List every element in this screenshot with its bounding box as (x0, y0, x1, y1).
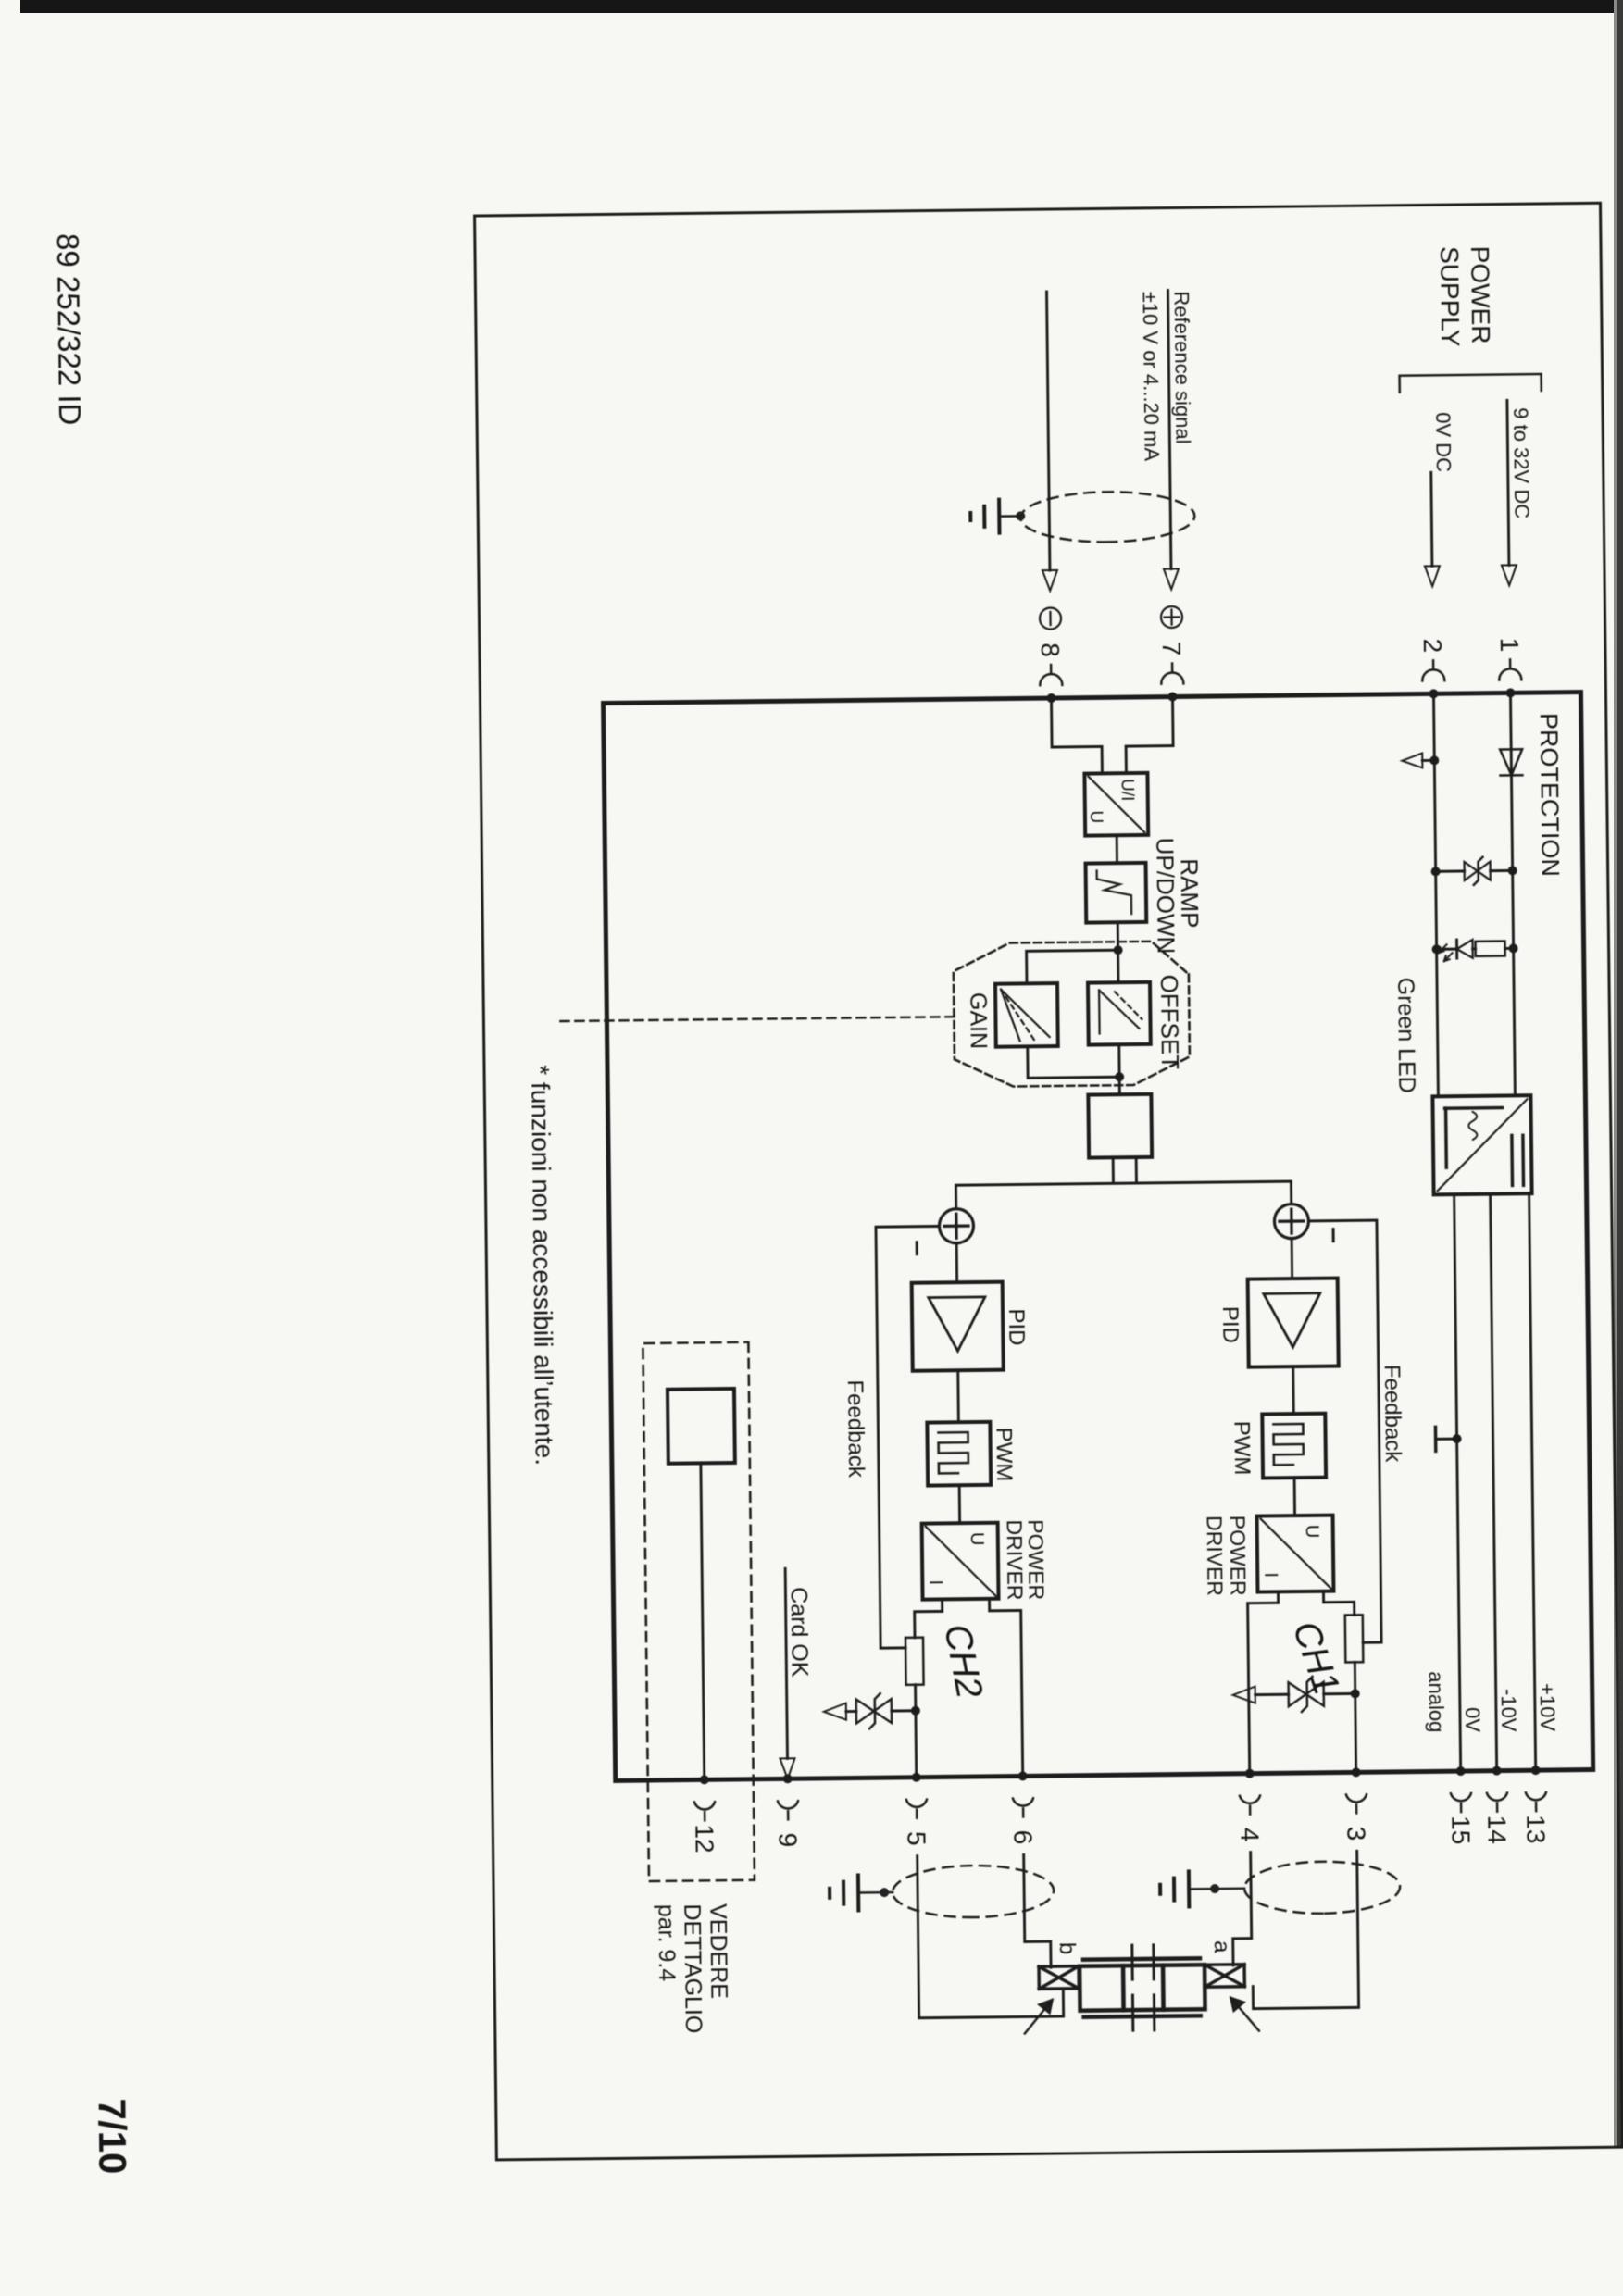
POWER DRIVER block CH2 (922, 1523, 999, 1600)
proportional valve body (1080, 1958, 1205, 2017)
shield ellipse CH1 cable (1244, 1861, 1401, 1915)
summing junction CH2 (939, 1209, 973, 1243)
wire (1292, 1366, 1294, 1414)
wire (1293, 1478, 1296, 1516)
DC/DC converter U2 (1432, 1095, 1531, 1194)
svg-text:I: I (925, 1579, 945, 1585)
scanner right edge band (1614, 0, 1623, 2148)
arrow solenoid a (1230, 1998, 1258, 2031)
node pin3 (1352, 1767, 1361, 1777)
wire pin2 supply (1431, 472, 1432, 566)
wire (958, 1485, 961, 1523)
svg-text:12: 12 (690, 1824, 718, 1853)
wire driver2 to pin6 (990, 1598, 1023, 1776)
wire pin4 to valve a (1232, 1853, 1252, 1965)
svg-text:1: 1 (1495, 637, 1524, 652)
wire junction to PID1 (1291, 1239, 1293, 1279)
RAMP UP/DOWN block (1086, 863, 1147, 923)
GAIN block (995, 983, 1058, 1047)
TVS suppressor across supply (1430, 856, 1517, 885)
node pin8 bus (1046, 693, 1055, 703)
wire pin7 to U/I (1125, 697, 1173, 774)
wire pin5 to valve b (918, 1854, 1064, 2018)
PWM block CH2 (927, 1422, 991, 1486)
node pin4 (1245, 1769, 1255, 1778)
wire driver1 to pin4 (1247, 1591, 1280, 1773)
shield ground CH2 (830, 1875, 893, 1911)
pin 15 (1446, 1793, 1476, 1845)
shield ground reference (970, 499, 1025, 533)
splitter wires (1113, 1157, 1136, 1183)
svg-text:POWER: POWER (1226, 1516, 1251, 1596)
dashed octagon non-accessible functions (954, 941, 1191, 1087)
svg-text:U/I: U/I (1117, 779, 1136, 802)
logic block in detail box (668, 1389, 735, 1464)
PWM block CH1 (1262, 1414, 1326, 1479)
svg-text:PWM: PWM (1229, 1421, 1255, 1476)
dashed detail box (643, 1342, 755, 1881)
wire pin3 to valve a (1252, 1851, 1359, 2008)
analog ground tap (1435, 1427, 1461, 1451)
pin 3 (1342, 1794, 1371, 1841)
green LED branch (1431, 939, 1517, 961)
minus circle pin8 (1040, 607, 1061, 629)
svg-text:9 to 32V DC: 9 to 32V DC (1509, 407, 1533, 518)
svg-text:POWER: POWER (1466, 246, 1495, 344)
svg-text:PWM: PWM (991, 1428, 1017, 1482)
svg-text:U: U (1086, 810, 1105, 823)
svg-text:Feedback: Feedback (1380, 1365, 1405, 1464)
wire (956, 1370, 960, 1422)
arrow solenoid b (1024, 2000, 1052, 2033)
svg-text:DRIVER: DRIVER (1003, 1519, 1028, 1600)
svg-text:5: 5 (902, 1831, 930, 1846)
wire (1117, 922, 1120, 982)
pin 12 (690, 1802, 719, 1853)
svg-text:analog: analog (1424, 1671, 1448, 1732)
gain branch wires (1027, 950, 1118, 983)
svg-text:PID: PID (1004, 1308, 1029, 1345)
svg-text:a: a (1209, 1940, 1234, 1953)
bracket (1400, 374, 1542, 393)
svg-text:UP/DOWN: UP/DOWN (1151, 837, 1180, 954)
OFFSET block (1088, 982, 1151, 1045)
feedback tap CH1 (1309, 1220, 1381, 1643)
card outline rectangle (604, 693, 1593, 1781)
wire (1117, 1044, 1121, 1094)
pin 5 (902, 1800, 931, 1846)
svg-text:I: I (1260, 1572, 1280, 1578)
TVS crowbar CH2 (824, 1693, 920, 1729)
svg-text:6: 6 (1008, 1829, 1037, 1844)
svg-text:89 252/322 ID: 89 252/322 ID (51, 233, 87, 426)
feedback tap CH2 (876, 1226, 943, 1648)
wire card ok to pin9 (785, 1568, 787, 1758)
stub arrow to other circuits (1402, 753, 1439, 767)
shield ellipse reference cable (1020, 491, 1195, 543)
svg-text:DRIVER: DRIVER (1203, 1516, 1228, 1596)
arrow pin2 (1425, 566, 1440, 586)
arrow pin9 (780, 1758, 794, 1778)
scanner top edge bar (20, 0, 1623, 13)
svg-text:Green LED: Green LED (1392, 978, 1419, 1093)
svg-text:+10V: +10V (1536, 1683, 1560, 1732)
summing junction CH1 (1274, 1204, 1308, 1238)
arrow pin7 (1164, 568, 1179, 589)
wire +supply inside card (1510, 693, 1515, 1095)
svg-text:PID: PID (1217, 1306, 1242, 1343)
node pin13 bus (1531, 1766, 1541, 1775)
svg-text:13: 13 (1521, 1815, 1550, 1844)
svg-text:15: 15 (1446, 1816, 1475, 1845)
PID block CH1 (1248, 1279, 1339, 1367)
pin 13 (1521, 1792, 1551, 1844)
svg-text:VEDERE: VEDERE (705, 1903, 731, 1999)
svg-text:3: 3 (1342, 1826, 1370, 1841)
node pin7 bus (1167, 692, 1177, 701)
sense resistor CH1 (1345, 1615, 1364, 1662)
svg-text:* funzioni non accessibili all: * funzioni non accessibili all’utente. (526, 1065, 559, 1466)
svg-text:U: U (967, 1532, 987, 1546)
node pin1 bus (1505, 688, 1515, 697)
svg-text:GAIN: GAIN (965, 992, 992, 1049)
node pin6 (1018, 1771, 1028, 1780)
outer frame (475, 203, 1623, 2160)
wire pin6 to valve b (1024, 1854, 1051, 1967)
svg-text:0V DC: 0V DC (1431, 412, 1455, 472)
pin 9 (773, 1801, 803, 1847)
wire 0V inside card (1433, 693, 1438, 1096)
solenoid b (1039, 1966, 1079, 1989)
svg-text:Feedback: Feedback (843, 1379, 868, 1479)
wire pin1 supply (1507, 400, 1509, 565)
node pin5 (912, 1773, 921, 1782)
pin 4 (1235, 1795, 1265, 1841)
0V analog rail (1454, 1194, 1461, 1771)
LED green (1456, 940, 1472, 958)
node gain in (1114, 945, 1123, 955)
diode D1 series (1500, 749, 1522, 775)
svg-text:2: 2 (1418, 638, 1447, 653)
PID block CH2 (912, 1282, 1004, 1371)
wire junction to PID2 (955, 1243, 958, 1282)
svg-text:8: 8 (1036, 643, 1065, 657)
shield ellipse CH2 cable (893, 1865, 1055, 1918)
svg-text:Card OK: Card OK (785, 1587, 812, 1678)
minus CH1 (1332, 1229, 1335, 1242)
+10V rail (1529, 1193, 1536, 1770)
wire to pin12 (701, 1463, 705, 1779)
arrow pin1 (1502, 565, 1517, 585)
sense resistor CH2 (905, 1638, 924, 1685)
svg-text:±10 V or 4...20 mA: ±10 V or 4...20 mA (1139, 292, 1164, 462)
wire pin8 (1047, 292, 1050, 570)
wire pin8 to U/I (1052, 697, 1103, 774)
wire driver2 to pin5 via resistor (915, 1599, 943, 1637)
svg-text:9: 9 (773, 1832, 802, 1847)
U/I converter block (1084, 773, 1148, 836)
plus circle pin7 (1161, 606, 1182, 628)
node pin2 bus (1429, 689, 1438, 698)
node pin15 bus (1456, 1766, 1466, 1776)
limiter block (1088, 1094, 1152, 1158)
node pin14 bus (1492, 1766, 1502, 1776)
pin 6 (1008, 1798, 1038, 1844)
svg-text:7: 7 (1157, 642, 1186, 656)
pin 14 (1482, 1792, 1512, 1844)
dashed pointer line (558, 1017, 954, 1021)
POWER DRIVER block CH1 (1257, 1516, 1334, 1592)
valve port ticks (1132, 1945, 1155, 2030)
node gain out (1115, 1072, 1124, 1081)
shield ground CH1 (1160, 1871, 1244, 1907)
svg-text:OFFSET: OFFSET (1155, 974, 1184, 1069)
svg-text:PROTECTION: PROTECTION (1535, 713, 1565, 877)
minus CH2 (916, 1242, 918, 1254)
solenoid a (1205, 1965, 1244, 1987)
svg-text:-10V: -10V (1497, 1689, 1521, 1732)
arrow pin8 (1042, 570, 1057, 591)
svg-text:Reference signal: Reference signal (1170, 291, 1195, 443)
svg-text:7/10: 7/10 (91, 2098, 135, 2174)
wire pin7 (1168, 291, 1171, 569)
svg-text:SUPPLY: SUPPLY (1435, 246, 1465, 347)
wire (1116, 835, 1118, 863)
svg-text:b: b (1055, 1942, 1080, 1955)
TVS crowbar CH1 (1233, 1676, 1360, 1713)
svg-text:DETTAGLIO: DETTAGLIO (679, 1903, 706, 2033)
svg-text:par. 9.4: par. 9.4 (653, 1904, 680, 1982)
svg-text:0V: 0V (1461, 1707, 1484, 1733)
svg-text:14: 14 (1482, 1815, 1511, 1844)
wire driver1 to pin3 via resistor (1323, 1591, 1354, 1615)
svg-text:U: U (1302, 1525, 1322, 1539)
-10V rail (1491, 1194, 1497, 1771)
resistor R led (1476, 941, 1505, 955)
svg-text:4: 4 (1235, 1828, 1264, 1842)
